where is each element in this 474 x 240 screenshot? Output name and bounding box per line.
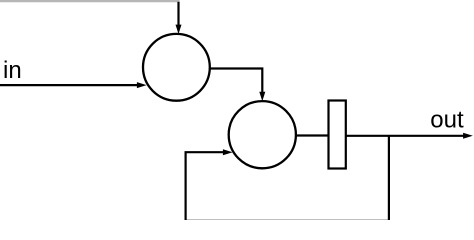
wire: S1 output to S2 (right then down) <box>210 69 262 93</box>
wire: top feedback line (clipped at top edge, appears gray) <box>0 0 180 2</box>
wire: left feedback riser and into S2 (up then right) <box>186 152 224 221</box>
wire: S2 output to delay block <box>296 134 329 136</box>
arrowhead: into top of summing junction S2 <box>259 92 265 101</box>
arrowhead: input into summing junction S1 <box>137 82 147 88</box>
svg-text:in: in <box>3 57 22 84</box>
block: delay element <box>329 101 346 169</box>
arrowhead: into top of summing junction S1 <box>176 25 182 34</box>
wire: vertical drop from top feedback into summing junction S1 <box>177 2 179 26</box>
wire: bottom feedback line (clipped at bottom edge) <box>186 220 389 222</box>
svg-text:out: out <box>430 106 464 133</box>
summing junction S1 <box>143 34 210 101</box>
summing junction S2 <box>229 101 296 168</box>
wire: input line <box>0 84 137 86</box>
arrowhead: output arrow <box>463 133 473 139</box>
wire: delay block to output <box>346 135 464 137</box>
arrowhead: feedback into summing junction S2 <box>223 149 233 155</box>
wire: output branch down (feedback tap, clipped at bottom) <box>388 136 390 221</box>
